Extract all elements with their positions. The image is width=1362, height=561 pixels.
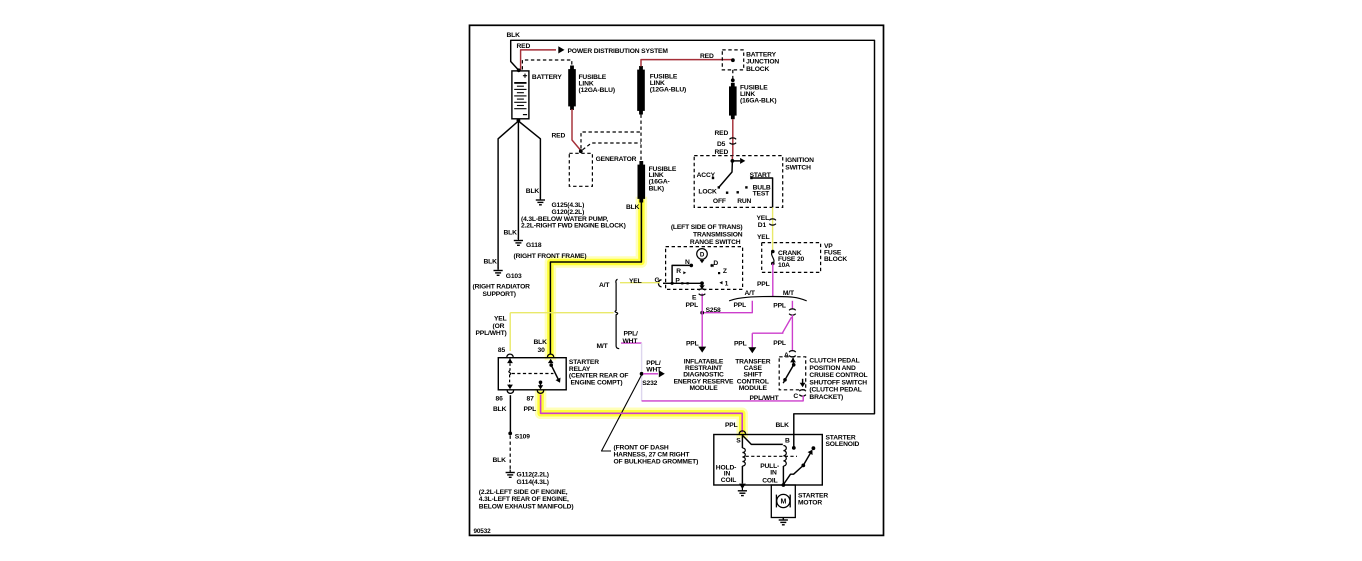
svg-text:PPL: PPL bbox=[734, 302, 747, 309]
svg-text:D: D bbox=[700, 252, 705, 259]
svg-text:M: M bbox=[780, 499, 786, 506]
svg-text:PPL/: PPL/ bbox=[624, 331, 639, 338]
svg-text:IN: IN bbox=[770, 470, 777, 477]
svg-text:TEST: TEST bbox=[753, 190, 771, 197]
svg-text:D1: D1 bbox=[758, 222, 767, 229]
svg-text:N: N bbox=[685, 259, 690, 266]
svg-text:(RIGHT RADIATOR: (RIGHT RADIATOR bbox=[473, 283, 531, 290]
svg-text:BLOCK: BLOCK bbox=[746, 66, 769, 73]
svg-text:STARTER: STARTER bbox=[798, 492, 828, 499]
svg-text:M/T: M/T bbox=[597, 343, 609, 350]
svg-text:OFF: OFF bbox=[713, 198, 726, 205]
svg-text:PPL: PPL bbox=[773, 340, 786, 347]
svg-text:85: 85 bbox=[498, 347, 506, 354]
svg-text:M/T: M/T bbox=[783, 290, 795, 297]
svg-text:CRUISE CONTROL: CRUISE CONTROL bbox=[809, 372, 867, 379]
svg-text:D: D bbox=[713, 260, 718, 267]
svg-text:G103: G103 bbox=[506, 273, 522, 280]
svg-text:G120(2.2L): G120(2.2L) bbox=[552, 209, 585, 216]
svg-text:(CENTER REAR OF: (CENTER REAR OF bbox=[569, 373, 628, 380]
svg-text:BLK: BLK bbox=[504, 229, 518, 236]
svg-text:90532: 90532 bbox=[474, 528, 492, 535]
svg-text:RED: RED bbox=[715, 130, 729, 137]
svg-text:BATTERY: BATTERY bbox=[532, 74, 562, 81]
svg-text:(12GA-BLU): (12GA-BLU) bbox=[650, 86, 686, 93]
svg-text:PPL: PPL bbox=[757, 281, 770, 288]
svg-text:POSITION AND: POSITION AND bbox=[809, 365, 856, 372]
svg-text:OF BULKHEAD GROMMET): OF BULKHEAD GROMMET) bbox=[614, 458, 699, 465]
svg-text:BLK: BLK bbox=[484, 258, 498, 265]
svg-text:G118: G118 bbox=[526, 242, 542, 249]
svg-text:RED: RED bbox=[517, 43, 531, 50]
svg-text:C: C bbox=[793, 393, 798, 400]
svg-text:BLK: BLK bbox=[776, 422, 790, 429]
svg-text:P: P bbox=[675, 278, 680, 285]
svg-text:S232: S232 bbox=[642, 380, 657, 387]
svg-text:1: 1 bbox=[725, 280, 729, 287]
svg-text:MOTOR: MOTOR bbox=[798, 499, 822, 506]
svg-text:30: 30 bbox=[538, 347, 546, 354]
svg-text:RED: RED bbox=[552, 132, 566, 139]
svg-text:E: E bbox=[692, 294, 697, 301]
svg-text:MODULE: MODULE bbox=[689, 385, 718, 392]
svg-text:JUNCTION: JUNCTION bbox=[746, 59, 779, 66]
svg-text:R: R bbox=[676, 268, 681, 275]
svg-text:BLK: BLK bbox=[526, 188, 540, 195]
svg-text:GENERATOR: GENERATOR bbox=[596, 156, 637, 163]
svg-text:BLK: BLK bbox=[626, 204, 640, 211]
svg-text:B: B bbox=[785, 437, 790, 444]
svg-text:(16GA-BLK): (16GA-BLK) bbox=[740, 97, 776, 104]
svg-text:WHT: WHT bbox=[646, 367, 662, 374]
svg-text:S258: S258 bbox=[706, 307, 721, 314]
svg-text:BATTERY: BATTERY bbox=[746, 51, 776, 58]
svg-text:BLK: BLK bbox=[493, 457, 507, 464]
svg-text:YEL: YEL bbox=[494, 316, 507, 323]
svg-text:S: S bbox=[736, 437, 741, 444]
svg-text:(CLUTCH PEDAL: (CLUTCH PEDAL bbox=[809, 387, 861, 394]
svg-text:SWITCH: SWITCH bbox=[785, 164, 811, 171]
svg-text:TRANSMISSION: TRANSMISSION bbox=[693, 231, 743, 238]
svg-text:ENGINE COMPT): ENGINE COMPT) bbox=[571, 380, 623, 387]
svg-text:BLK: BLK bbox=[534, 339, 548, 346]
svg-text:(LEFT SIDE OF TRANS): (LEFT SIDE OF TRANS) bbox=[671, 224, 743, 231]
svg-text:87: 87 bbox=[527, 395, 535, 402]
svg-text:PPL/WHT: PPL/WHT bbox=[750, 395, 780, 402]
svg-text:WHT: WHT bbox=[623, 338, 639, 345]
svg-text:BLK): BLK) bbox=[649, 185, 664, 192]
svg-text:PPL: PPL bbox=[686, 341, 699, 348]
svg-text:CLUTCH PEDAL: CLUTCH PEDAL bbox=[809, 358, 859, 365]
svg-text:YEL: YEL bbox=[629, 278, 642, 285]
svg-text:RANGE SWITCH: RANGE SWITCH bbox=[690, 239, 741, 246]
svg-text:HARNESS, 27 CM RIGHT: HARNESS, 27 CM RIGHT bbox=[614, 451, 691, 458]
svg-text:COIL: COIL bbox=[721, 477, 736, 484]
svg-text:RUN: RUN bbox=[737, 198, 751, 205]
svg-text:YEL: YEL bbox=[757, 215, 770, 222]
svg-text:A/T: A/T bbox=[745, 290, 756, 297]
svg-text:(OR: (OR bbox=[493, 323, 505, 330]
svg-text:(2.2L-LEFT SIDE OF ENGINE,: (2.2L-LEFT SIDE OF ENGINE, bbox=[479, 489, 568, 496]
svg-text:BELOW EXHAUST MANIFOLD): BELOW EXHAUST MANIFOLD) bbox=[479, 504, 574, 511]
svg-text:BLK: BLK bbox=[493, 406, 507, 413]
svg-text:2.2L-RIGHT FWD ENGINE BLOCK): 2.2L-RIGHT FWD ENGINE BLOCK) bbox=[521, 222, 626, 229]
svg-text:A: A bbox=[784, 352, 789, 359]
svg-text:S109: S109 bbox=[515, 433, 530, 440]
svg-text:PPL: PPL bbox=[686, 302, 699, 309]
svg-text:YEL: YEL bbox=[757, 234, 770, 241]
svg-text:SUPPORT): SUPPORT) bbox=[483, 291, 516, 298]
svg-text:PPL: PPL bbox=[734, 341, 747, 348]
svg-text:(12GA-BLU): (12GA-BLU) bbox=[579, 87, 615, 94]
svg-text:10A: 10A bbox=[778, 262, 790, 269]
svg-text:MODULE: MODULE bbox=[739, 385, 768, 392]
svg-text:G114(4.3L): G114(4.3L) bbox=[517, 479, 549, 486]
svg-text:PPL: PPL bbox=[725, 422, 738, 429]
svg-text:BRACKET): BRACKET) bbox=[809, 394, 843, 401]
svg-text:POWER DISTRIBUTION SYSTEM: POWER DISTRIBUTION SYSTEM bbox=[568, 48, 669, 55]
svg-text:G112(2.2L): G112(2.2L) bbox=[517, 471, 549, 478]
svg-text:BLOCK: BLOCK bbox=[824, 256, 847, 263]
svg-text:BLK: BLK bbox=[507, 32, 521, 39]
svg-text:4.3L-LEFT REAR OF ENGINE,: 4.3L-LEFT REAR OF ENGINE, bbox=[479, 496, 569, 503]
svg-text:A/T: A/T bbox=[599, 282, 610, 289]
svg-text:Z: Z bbox=[723, 268, 727, 275]
svg-text:PPL: PPL bbox=[524, 406, 537, 413]
svg-text:IGNITION: IGNITION bbox=[785, 157, 814, 164]
svg-text:D5: D5 bbox=[717, 141, 726, 148]
svg-text:RED: RED bbox=[700, 53, 714, 60]
svg-text:PPL/WHT): PPL/WHT) bbox=[476, 330, 507, 337]
svg-text:(RIGHT FRONT FRAME): (RIGHT FRONT FRAME) bbox=[514, 253, 587, 260]
svg-text:SOLENOID: SOLENOID bbox=[826, 441, 860, 448]
svg-text:COIL: COIL bbox=[762, 477, 777, 484]
svg-text:PPL: PPL bbox=[773, 303, 786, 310]
svg-text:SHUTOFF SWITCH: SHUTOFF SWITCH bbox=[809, 379, 867, 386]
svg-text:86: 86 bbox=[496, 395, 504, 402]
svg-text:LOCK: LOCK bbox=[698, 188, 717, 195]
